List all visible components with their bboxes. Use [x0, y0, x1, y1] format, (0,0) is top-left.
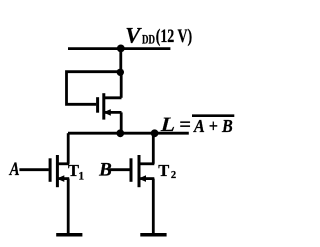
transistor T1 [50, 155, 69, 187]
svg-text:T: T [158, 161, 169, 180]
node feedback junction [117, 69, 124, 76]
svg-text:2: 2 [171, 170, 176, 181]
svg-text:A + B: A + B [193, 116, 233, 136]
svg-text:1: 1 [78, 171, 84, 183]
wire T1 source vertical [67, 179, 70, 234]
wire output node line [68, 132, 189, 135]
svg-text:A: A [9, 160, 20, 180]
node output junction (load source) [116, 129, 124, 137]
svg-text:DD: DD [142, 33, 155, 47]
wire T2 drain vertical [152, 133, 155, 164]
ground (T2 source) [140, 233, 166, 237]
node VDD junction [117, 45, 125, 53]
wire A gate lead [19, 168, 48, 171]
svg-text:B: B [98, 160, 112, 181]
overline of A+B [192, 114, 234, 117]
wire feedback loop (drain-gate tie of load) [67, 72, 121, 105]
wire T1 drain vertical [67, 133, 70, 164]
svg-text:T: T [68, 161, 79, 180]
transistor T2 [131, 155, 154, 187]
svg-text:(12 V): (12 V) [156, 26, 193, 47]
wire load source vertical [120, 112, 123, 133]
svg-text:=: = [179, 114, 191, 136]
wire B gate lead [109, 168, 130, 171]
wire VDD rail [68, 47, 170, 50]
wire VDD to feedback node [119, 49, 122, 73]
svg-text:V: V [125, 22, 142, 47]
transistor load (gate-drain tied NMOS) [98, 93, 122, 119]
wire load drain vertical [120, 72, 123, 98]
node output junction (T2 drain) [151, 129, 159, 137]
ground (T1 source) [56, 233, 82, 237]
wire T2 source vertical [152, 179, 155, 234]
